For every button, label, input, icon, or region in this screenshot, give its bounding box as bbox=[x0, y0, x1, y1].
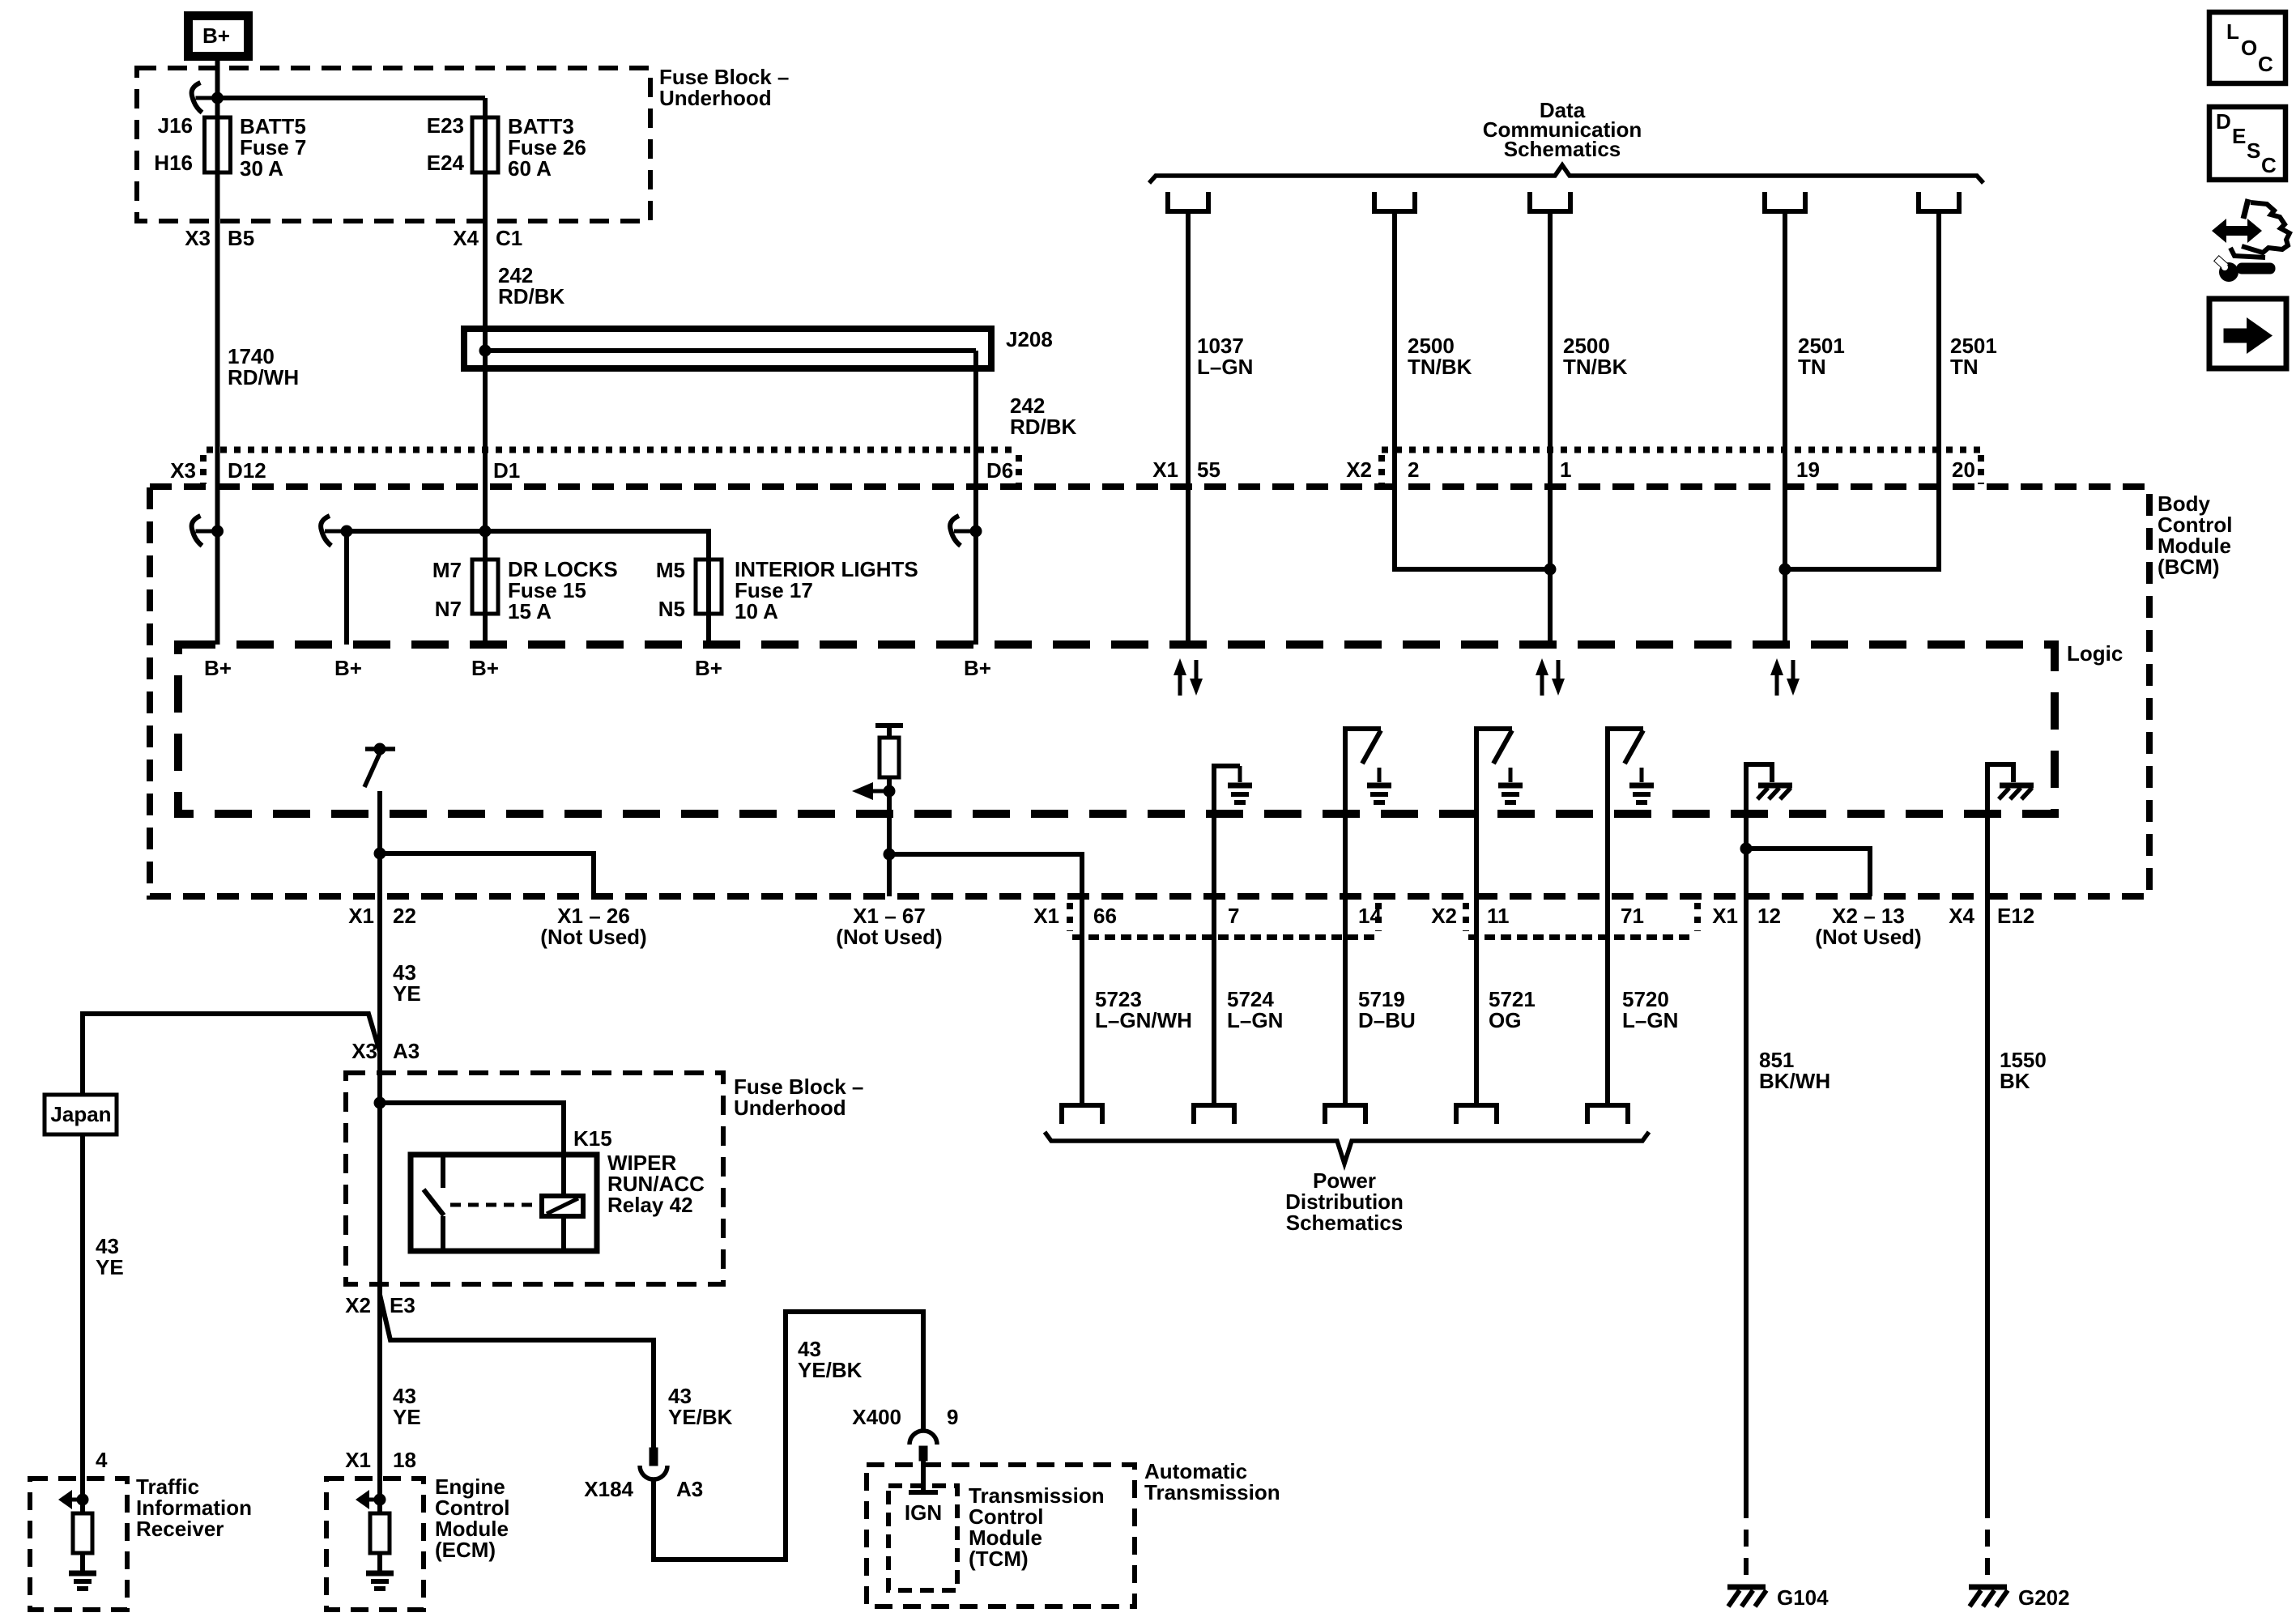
label X1 12 pins bbox=[1712, 904, 1781, 928]
label X1 55 pins bbox=[1152, 457, 1220, 482]
label transmission control module TCM bbox=[969, 1483, 1105, 1571]
label BATT5 Fuse 7 30 A bbox=[240, 114, 306, 181]
label X1 22 pins bbox=[348, 904, 416, 928]
connector dotted line X3-X4 row bbox=[203, 450, 1019, 485]
label H16 bbox=[154, 151, 193, 175]
inline connector X400 bbox=[909, 1431, 937, 1461]
svg-text:S: S bbox=[2247, 138, 2260, 163]
label 43 YE/BK second bbox=[798, 1337, 863, 1382]
label 2500 TN/BK left bbox=[1408, 334, 1472, 379]
svg-text:X1: X1 bbox=[1152, 457, 1178, 482]
svg-text:OG: OG bbox=[1489, 1008, 1521, 1032]
label 5724 L-GN bbox=[1227, 987, 1283, 1032]
arrow left X1-67 bbox=[852, 782, 889, 800]
TCM inner box bbox=[888, 1486, 957, 1590]
wire 242 vertical (fuse 26 to J208 to D1) bbox=[483, 98, 488, 645]
label pin 7b bbox=[1228, 904, 1239, 928]
label 2501 TN right bbox=[1950, 334, 1997, 379]
label B+ terminal 2 bbox=[334, 656, 362, 680]
label B+ terminal 5 bbox=[964, 656, 991, 680]
svg-text:18: 18 bbox=[393, 1448, 416, 1472]
svg-text:M5: M5 bbox=[656, 558, 685, 582]
svg-text:2: 2 bbox=[1408, 457, 1419, 482]
label pin 4 bbox=[96, 1448, 108, 1472]
svg-text:L: L bbox=[2226, 19, 2239, 44]
svg-text:E: E bbox=[2232, 124, 2246, 148]
node bus2 junction bbox=[341, 526, 353, 538]
svg-text:(TCM): (TCM) bbox=[969, 1547, 1029, 1571]
switch to ground pin 11 bbox=[1476, 729, 1523, 1105]
svg-text:D–BU: D–BU bbox=[1358, 1008, 1416, 1032]
svg-text:(Not Used): (Not Used) bbox=[540, 925, 646, 949]
brace power distribution bbox=[1045, 1132, 1649, 1164]
label X184 A3 bbox=[584, 1477, 703, 1501]
svg-text:X1: X1 bbox=[348, 904, 374, 928]
svg-text:BK/WH: BK/WH bbox=[1759, 1069, 1830, 1093]
off-page connector data 4 bbox=[1765, 192, 1805, 211]
off-page connector data 2 bbox=[1374, 192, 1415, 211]
svg-text:X4: X4 bbox=[1949, 904, 1974, 928]
chassis ground pin E12 bbox=[1987, 764, 2034, 799]
wire X1-66 branch bbox=[889, 854, 1082, 1105]
svg-text:J16: J16 bbox=[158, 113, 193, 138]
automatic transmission box bbox=[867, 1465, 1135, 1606]
label pin 14 bbox=[1358, 904, 1382, 928]
svg-text:N7: N7 bbox=[435, 597, 462, 621]
svg-text:D6: D6 bbox=[986, 458, 1013, 483]
wire 43 YE/BK branch bbox=[380, 1295, 654, 1449]
label X3 B5 connector pins bbox=[185, 226, 254, 250]
svg-text:Underhood: Underhood bbox=[734, 1096, 846, 1120]
label X1-67 not used bbox=[836, 904, 942, 949]
svg-text:TN: TN bbox=[1950, 355, 1979, 379]
engine control module box bbox=[326, 1479, 424, 1610]
svg-text:Schematics: Schematics bbox=[1286, 1211, 1404, 1235]
label M7 bbox=[432, 558, 462, 582]
svg-text:B+: B+ bbox=[964, 656, 991, 680]
wire J208 internal bus bbox=[485, 348, 976, 353]
svg-text:J208: J208 bbox=[1006, 327, 1053, 351]
svg-text:B+: B+ bbox=[204, 656, 232, 680]
svg-text:H16: H16 bbox=[154, 151, 193, 175]
svg-text:E24: E24 bbox=[427, 151, 465, 175]
svg-text:55: 55 bbox=[1197, 457, 1220, 482]
label X2 E3 pins bbox=[345, 1293, 415, 1317]
off-page connector power 4 bbox=[1456, 1105, 1497, 1124]
svg-text:O: O bbox=[2241, 36, 2257, 60]
label 2500 TN/BK right bbox=[1563, 334, 1628, 379]
wire 1550 inside BCM bbox=[1985, 764, 1990, 1501]
svg-text:B+: B+ bbox=[695, 656, 722, 680]
label X4 E12 pins bbox=[1949, 904, 2034, 928]
svg-text:9: 9 bbox=[947, 1405, 958, 1429]
label X1-26 not used bbox=[540, 904, 646, 949]
svg-text:E12: E12 bbox=[1997, 904, 2034, 928]
switch to ground pin 14 bbox=[1345, 729, 1391, 1105]
splice hook D6 bbox=[950, 516, 976, 546]
fuse block underhood box 2 bbox=[346, 1073, 723, 1284]
svg-text:X400: X400 bbox=[852, 1405, 901, 1429]
label D1 bbox=[493, 458, 520, 483]
updown arrows 55 bbox=[1174, 658, 1203, 696]
wire bottom jog bbox=[654, 1312, 923, 1560]
svg-text:19: 19 bbox=[1796, 457, 1820, 482]
label power distribution schematics bbox=[1285, 1168, 1404, 1235]
label pin 71 bbox=[1621, 904, 1644, 928]
label 43 YE above ECM bbox=[393, 1384, 421, 1429]
svg-text:(BCM): (BCM) bbox=[2158, 555, 2220, 579]
off-page connector data 3 bbox=[1530, 192, 1570, 211]
svg-text:RD/BK: RD/BK bbox=[498, 284, 565, 309]
wire 2500 TN/BK right bbox=[1548, 211, 1553, 645]
relay switch bbox=[424, 1155, 444, 1251]
svg-text:1: 1 bbox=[1560, 457, 1571, 482]
svg-text:K15: K15 bbox=[573, 1126, 612, 1151]
node D12 junction bbox=[211, 526, 224, 538]
wire IGN stub bbox=[909, 1461, 938, 1492]
svg-text:X4: X4 bbox=[453, 226, 479, 250]
label X3 A3 pins bbox=[351, 1039, 420, 1063]
label E23 bbox=[427, 113, 464, 138]
wire 1550 dashed to ground bbox=[1985, 1501, 1990, 1585]
label engine control module ECM bbox=[435, 1474, 509, 1562]
icon hand with arrow and wrench bbox=[2212, 199, 2290, 282]
svg-text:N5: N5 bbox=[658, 597, 685, 621]
label 2501 TN left bbox=[1798, 334, 1845, 379]
svg-text:B5: B5 bbox=[228, 226, 254, 250]
wire 851 dashed to ground bbox=[1744, 1501, 1749, 1585]
wire X2-13 branch bbox=[1746, 849, 1870, 896]
fuse block underhood box 1 bbox=[137, 68, 650, 221]
label wire 242 RD/BK upper bbox=[498, 263, 565, 309]
off-page connector power 3 bbox=[1325, 1105, 1365, 1124]
label X2 11 pins bbox=[1431, 904, 1509, 928]
label WIPER RUN/ACC Relay 42 bbox=[607, 1151, 705, 1217]
node X2-13 branch junction bbox=[1740, 843, 1753, 855]
label X1 66 pins bbox=[1033, 904, 1117, 928]
label pin 20 bbox=[1952, 457, 1975, 482]
ECM internals bbox=[356, 1490, 394, 1589]
node X1-67 arrow junction bbox=[884, 785, 896, 798]
updown arrows 1 bbox=[1536, 658, 1565, 696]
svg-text:71: 71 bbox=[1621, 904, 1644, 928]
label B+ terminal 4 bbox=[695, 656, 722, 680]
label fuse block underhood 2 bbox=[734, 1074, 863, 1120]
label N5 bbox=[658, 597, 685, 621]
svg-text:Receiver: Receiver bbox=[136, 1517, 224, 1541]
node D6 junction bbox=[970, 526, 982, 538]
svg-text:RD/BK: RD/BK bbox=[1010, 415, 1077, 439]
label G202 bbox=[2018, 1585, 2070, 1610]
node X1-66 branch junction bbox=[884, 849, 896, 861]
icon DESC box bbox=[2209, 107, 2285, 180]
wire X1-22 upper bbox=[377, 791, 382, 896]
svg-text:X184: X184 bbox=[584, 1477, 633, 1501]
brace data communication bbox=[1149, 165, 1983, 183]
off-page connector power 5 bbox=[1587, 1105, 1628, 1124]
svg-text:C: C bbox=[2261, 153, 2277, 177]
label DR LOCKS Fuse 15 15 A bbox=[508, 557, 618, 623]
svg-text:7: 7 bbox=[1228, 904, 1239, 928]
svg-text:X3: X3 bbox=[185, 226, 211, 250]
label wire 242 RD/BK right bbox=[1010, 394, 1077, 439]
svg-text:TN: TN bbox=[1798, 355, 1826, 379]
svg-text:15 A: 15 A bbox=[508, 599, 552, 623]
svg-text:(Not Used): (Not Used) bbox=[836, 925, 942, 949]
label N7 bbox=[435, 597, 462, 621]
svg-text:X3: X3 bbox=[351, 1039, 377, 1063]
svg-text:G104: G104 bbox=[1777, 1585, 1829, 1610]
label E24 bbox=[427, 151, 465, 175]
label K15 bbox=[573, 1126, 612, 1151]
svg-text:A3: A3 bbox=[393, 1039, 420, 1063]
off-page connector power 2 bbox=[1194, 1105, 1234, 1124]
label D6 bbox=[986, 458, 1013, 483]
inline connector X184 bbox=[640, 1448, 667, 1479]
svg-text:Schematics: Schematics bbox=[1504, 137, 1621, 161]
wire 851 inside BCM bbox=[1744, 764, 1749, 1501]
svg-text:20: 20 bbox=[1952, 457, 1975, 482]
wire B+ bus horizontal bbox=[218, 96, 486, 100]
svg-text:E3: E3 bbox=[390, 1293, 415, 1317]
label J208 bbox=[1006, 327, 1053, 351]
fuse 17 INTERIOR LIGHTS 10A bbox=[696, 560, 722, 614]
wire 2501 TN left bbox=[1783, 211, 1787, 645]
svg-text:X2: X2 bbox=[1346, 457, 1372, 482]
label X1 18 pins bbox=[345, 1448, 416, 1472]
svg-text:B+: B+ bbox=[471, 656, 499, 680]
svg-text:L–GN: L–GN bbox=[1197, 355, 1253, 379]
svg-text:YE: YE bbox=[393, 981, 421, 1006]
node junction 2501 pair bbox=[1779, 564, 1791, 576]
label 5720 L-GN bbox=[1622, 987, 1678, 1032]
svg-text:X2: X2 bbox=[1431, 904, 1457, 928]
chassis ground pin 12 bbox=[1746, 764, 1792, 799]
svg-text:IGN: IGN bbox=[905, 1500, 942, 1525]
label M5 bbox=[656, 558, 685, 582]
wire 242 vertical right (J208 to D6) bbox=[973, 351, 978, 645]
label 851 BK/WH bbox=[1759, 1048, 1830, 1093]
TIR internals bbox=[58, 1490, 96, 1589]
svg-text:Japan: Japan bbox=[50, 1102, 111, 1126]
label X400 9 bbox=[852, 1405, 958, 1429]
svg-text:14: 14 bbox=[1358, 904, 1382, 928]
svg-text:E23: E23 bbox=[427, 113, 464, 138]
svg-text:(ECM): (ECM) bbox=[435, 1538, 496, 1562]
icon arrow box bbox=[2209, 299, 2286, 368]
wire 2501 TN right bbox=[1785, 211, 1939, 569]
label J16 bbox=[158, 113, 193, 138]
svg-text:Transmission: Transmission bbox=[1144, 1480, 1280, 1504]
label traffic information receiver bbox=[136, 1474, 252, 1541]
label automatic transmission bbox=[1144, 1459, 1280, 1504]
label body control module BCM bbox=[2158, 491, 2232, 579]
svg-text:Relay 42: Relay 42 bbox=[607, 1193, 693, 1217]
node X1-22 branch junction bbox=[374, 848, 386, 860]
svg-text:C: C bbox=[2258, 52, 2273, 76]
svg-text:60 A: 60 A bbox=[508, 156, 552, 181]
label 5723 L-GN/WH bbox=[1095, 987, 1192, 1032]
label pin 1 bbox=[1560, 457, 1571, 482]
wire 1037 L-GN bbox=[1186, 211, 1191, 645]
connector bracket X1 bottom bbox=[1070, 903, 1378, 938]
label pin 19 bbox=[1796, 457, 1820, 482]
svg-text:YE/BK: YE/BK bbox=[798, 1358, 863, 1382]
wire B+ distribution bus and branches bbox=[347, 531, 709, 645]
label logic bbox=[2067, 641, 2123, 666]
svg-text:D: D bbox=[2216, 109, 2231, 134]
wire 2500 TN/BK left bbox=[1395, 211, 1550, 569]
svg-text:Logic: Logic bbox=[2067, 641, 2123, 666]
label 5721 OG bbox=[1489, 987, 1536, 1032]
svg-text:66: 66 bbox=[1093, 904, 1117, 928]
ground symbol pin 7 bbox=[1214, 766, 1252, 1105]
icon LOC box bbox=[2209, 12, 2285, 83]
label X2-13 not used bbox=[1815, 904, 1921, 949]
relay coil bbox=[542, 1196, 583, 1251]
svg-text:G202: G202 bbox=[2018, 1585, 2070, 1610]
splice pack J208 box bbox=[464, 329, 991, 368]
label IGN bbox=[905, 1500, 942, 1525]
label B+ terminal 1 bbox=[204, 656, 232, 680]
label X2 2 pins bbox=[1346, 457, 1419, 482]
svg-text:12: 12 bbox=[1757, 904, 1781, 928]
node junction 2500 pair bbox=[1544, 564, 1557, 576]
label 1550 BK bbox=[2000, 1048, 2047, 1093]
svg-text:10 A: 10 A bbox=[735, 599, 778, 623]
wire Japan vertical bbox=[80, 1134, 85, 1500]
svg-text:M7: M7 bbox=[432, 558, 462, 582]
off-page connector data 1 bbox=[1168, 192, 1208, 211]
label wire 1740 RD/WH bbox=[228, 344, 299, 389]
relay box K15 bbox=[411, 1155, 597, 1251]
svg-text:TN/BK: TN/BK bbox=[1563, 355, 1628, 379]
connector bracket X2 bottom bbox=[1466, 903, 1698, 938]
splice hook B+ bus 2 bbox=[321, 516, 347, 546]
svg-text:B+: B+ bbox=[334, 656, 362, 680]
Japan variant box bbox=[45, 1095, 117, 1134]
svg-text:(Not Used): (Not Used) bbox=[1815, 925, 1921, 949]
svg-text:X1: X1 bbox=[1712, 904, 1738, 928]
label BATT3 Fuse 26 60 A bbox=[508, 114, 586, 181]
node J208 junction bbox=[479, 345, 492, 357]
ground G202 bbox=[1969, 1587, 2008, 1606]
label 43 YE/BK first bbox=[668, 1384, 733, 1429]
relay actuation dashed link bbox=[450, 1203, 539, 1207]
node K15 junction bbox=[374, 1097, 386, 1109]
svg-text:30 A: 30 A bbox=[240, 156, 283, 181]
wire 43 YE branch to Japan bbox=[83, 1014, 380, 1095]
svg-text:YE: YE bbox=[96, 1255, 124, 1279]
svg-text:YE: YE bbox=[393, 1405, 421, 1429]
resistor network X1-67 bbox=[875, 726, 903, 777]
svg-text:22: 22 bbox=[393, 904, 416, 928]
node B+ bus junction bbox=[211, 92, 224, 104]
fuse 7 BATT5 30A bbox=[205, 117, 231, 172]
wire X1-26 branch bbox=[380, 853, 594, 896]
wire X1-67 lower bbox=[887, 777, 892, 896]
traffic information receiver box bbox=[30, 1479, 127, 1610]
svg-text:4: 4 bbox=[96, 1448, 108, 1472]
svg-text:TN/BK: TN/BK bbox=[1408, 355, 1472, 379]
fuse 15 DR LOCKS 15A bbox=[472, 560, 498, 614]
logic box bbox=[178, 645, 2055, 814]
svg-text:L–GN: L–GN bbox=[1622, 1008, 1678, 1032]
switch to ground pin 71 bbox=[1608, 729, 1654, 1105]
label data communication schematics bbox=[1483, 98, 1642, 161]
label 43 YE below 22 bbox=[393, 960, 421, 1006]
wire to relay coil K15 bbox=[380, 1103, 564, 1196]
label INTERIOR LIGHTS Fuse 17 10 A bbox=[735, 557, 918, 623]
svg-text:RD/WH: RD/WH bbox=[228, 365, 299, 389]
svg-text:X1: X1 bbox=[1033, 904, 1059, 928]
label 1037 L-GN bbox=[1197, 334, 1253, 379]
svg-text:L–GN/WH: L–GN/WH bbox=[1095, 1008, 1192, 1032]
svg-text:B+: B+ bbox=[202, 23, 230, 48]
off-page connector data 5 bbox=[1919, 192, 1959, 211]
connector dotted line X2 row bbox=[1382, 450, 1981, 485]
off-page connector power 1 bbox=[1062, 1105, 1102, 1124]
switch contact X1-22 bbox=[364, 743, 395, 788]
svg-text:X3: X3 bbox=[170, 458, 196, 483]
wire 43 YE main vertical bbox=[377, 896, 382, 1500]
svg-text:11: 11 bbox=[1487, 904, 1510, 928]
body control module BCM box bbox=[150, 487, 2149, 896]
svg-text:D12: D12 bbox=[228, 458, 266, 483]
wire 1740 vertical (B+ to BCM D12) bbox=[215, 61, 220, 645]
splice hook at B+ bus bbox=[192, 83, 218, 113]
label B+ terminal 3 bbox=[471, 656, 499, 680]
ground G104 bbox=[1727, 1587, 1766, 1606]
svg-text:X1: X1 bbox=[345, 1448, 371, 1472]
svg-text:Underhood: Underhood bbox=[659, 86, 772, 110]
updown arrows 19 bbox=[1770, 658, 1800, 696]
svg-text:C1: C1 bbox=[496, 226, 522, 250]
svg-text:L–GN: L–GN bbox=[1227, 1008, 1283, 1032]
node D1 bus junction bbox=[479, 526, 492, 538]
label X3 D12 bbox=[170, 458, 266, 483]
svg-text:BK: BK bbox=[2000, 1069, 2030, 1093]
svg-text:X2: X2 bbox=[345, 1293, 371, 1317]
label X4 C1 connector pins bbox=[453, 226, 522, 250]
label G104 bbox=[1777, 1585, 1829, 1610]
svg-text:D1: D1 bbox=[493, 458, 520, 483]
label 43 YE Japan bbox=[96, 1234, 124, 1279]
svg-text:A3: A3 bbox=[676, 1477, 703, 1501]
svg-text:YE/BK: YE/BK bbox=[668, 1405, 733, 1429]
label 5719 D-BU bbox=[1358, 987, 1416, 1032]
label fuse block underhood 1 bbox=[659, 65, 789, 110]
fuse 26 BATT3 60A bbox=[472, 117, 498, 172]
splice hook D12 bbox=[192, 516, 218, 546]
battery positive voltage symbol B+ bbox=[189, 16, 249, 57]
